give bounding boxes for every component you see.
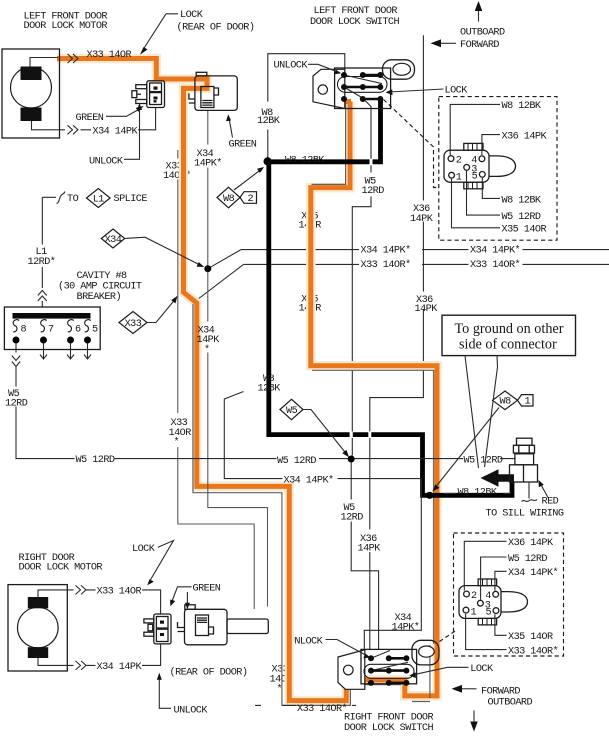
svg-text:W8 12BK: W8 12BK [502, 101, 542, 112]
wire thin shadow right vertical route [312, 370, 434, 644]
label RED with arrow [539, 480, 559, 508]
svg-text:14OR: 14OR [169, 428, 192, 439]
label W5 12RD middle [341, 503, 364, 524]
wire X33 14OR horizontal nets y=249/263 (thin, under orange) [198, 250, 609, 300]
label X35 14OR bottom box [495, 614, 553, 643]
wire X36 14PK vertical from top switch bracket [370, 35, 424, 649]
splice symbol W5 diamond [280, 399, 349, 457]
break squiggle on L1 wire [57, 192, 65, 204]
svg-text:X34 14PK: X34 14PK [97, 662, 143, 673]
label UNLOCK top motor [89, 103, 142, 168]
wire X33 14OR original thin (T1) conn2 to conn2-bottom [178, 150, 254, 609]
svg-text:X34 14PK*: X34 14PK* [470, 244, 520, 256]
svg-text:X33 14OR: X33 14OR [97, 587, 142, 598]
label X34 14PK* on line B upper [194, 149, 222, 170]
dashed box top connector detail [439, 97, 557, 241]
svg-text:BREAKER): BREAKER) [77, 291, 122, 303]
svg-text:X33 14OR: X33 14OR [87, 50, 132, 61]
label X33 14OR* bottom box [466, 614, 558, 658]
svg-text:X34 14PK: X34 14PK [93, 127, 139, 138]
wire W8 12BK thin from UNLOCK hook to junction [268, 54, 345, 161]
label X33 14OR* bottom wire [255, 703, 356, 715]
svg-text:RIGHT FRONT DOOR: RIGHT FRONT DOOR [344, 712, 433, 723]
node W5 junction dot [348, 456, 355, 463]
label TO L1 SPLICE [67, 189, 147, 208]
svg-text:DOOR LOCK MOTOR: DOOR LOCK MOTOR [19, 563, 103, 574]
label X33 14OR bottom-left of bottom switch (under orange) [270, 664, 289, 695]
label LEFT FRONT DOOR / DOOR LOCK SWITCH [310, 6, 399, 28]
dashed leader to bottom box [440, 631, 457, 642]
svg-text:W5 12RD: W5 12RD [76, 455, 115, 466]
connector symbol chevrons down on W5 wire pin8 [12, 356, 20, 367]
svg-text:12BK: 12BK [258, 384, 282, 395]
svg-text:(REAR OF DOOR): (REAR OF DOOR) [170, 666, 248, 678]
svg-text:X34: X34 [105, 235, 122, 246]
motor M2 right door lock motor [8, 585, 67, 671]
callout box To ground on other side of connector [442, 315, 576, 468]
svg-text:DOOR LOCK SWITCH: DOOR LOCK SWITCH [344, 723, 433, 734]
svg-text:UNLOCK: UNLOCK [274, 61, 309, 72]
wire L1 12RD to splice [42, 197, 56, 288]
wire thin shadow of orange along left route [193, 304, 430, 705]
connector symbol >> on M2 X33 wire [76, 585, 87, 594]
svg-text:LOCK: LOCK [445, 85, 469, 96]
svg-text:*: * [204, 344, 210, 356]
node W8 junction dot upper [264, 157, 272, 165]
svg-text:5: 5 [486, 608, 492, 619]
arrow OUTBOARD bottom [470, 697, 532, 731]
svg-text:X33 14OR*: X33 14OR* [508, 646, 558, 658]
splice symbol X33 diamond [119, 296, 178, 334]
svg-text:2: 2 [471, 591, 477, 602]
connector symbol >> on X34 wire [68, 125, 79, 134]
svg-text:W8 12BK: W8 12BK [458, 487, 498, 498]
svg-text:X33 14OR*: X33 14OR* [361, 259, 411, 271]
circuit breaker CB1 cavity #8 [4, 307, 100, 350]
svg-text:X33 14OR*: X33 14OR* [470, 259, 520, 271]
svg-text:W5 12RD: W5 12RD [277, 456, 316, 467]
label LOCK bottom switch [409, 664, 494, 678]
svg-text:12BK: 12BK [257, 116, 281, 127]
label W8 12BK pin2 [450, 101, 542, 155]
label X33 14OR* on T1 lower [169, 418, 192, 448]
arrow OUTBOARD top [460, 1, 505, 38]
wire W5 12RD horizontal from breaker to sill connector [16, 367, 515, 459]
svg-text:CAVITY #8: CAVITY #8 [77, 271, 128, 282]
label RIGHT FRONT DOOR / DOOR LOCK SWITCH [344, 712, 433, 734]
switch S1 left front door lock switch [313, 60, 415, 109]
svg-text:X34 14PK*: X34 14PK* [284, 475, 334, 487]
wire thin shadow top right route [312, 102, 346, 185]
label CAVITY #8 (30 AMP CIRCUIT BREAKER) [58, 271, 142, 303]
svg-text:FORWARD: FORWARD [481, 686, 520, 697]
big arrow to ground (end of W8 wire) [481, 469, 515, 486]
label X36 14PK lower [358, 534, 382, 555]
svg-text:X33: X33 [125, 319, 142, 330]
label W8 12BK over thick vertical wire [258, 374, 282, 395]
label GREEN bottom connectors [170, 583, 221, 609]
wire motor M1 top terminal [30, 58, 58, 68]
connector symbol W8>2 [217, 167, 264, 208]
svg-text:14PK: 14PK [410, 214, 434, 225]
svg-text:W5 12RD: W5 12RD [502, 212, 541, 223]
svg-text:TO SILL WIRING: TO SILL WIRING [486, 508, 564, 519]
label W8 12BK on thick wire near ground arrow [443, 487, 511, 498]
label W8 12BK pin5 [482, 178, 542, 206]
label RIGHT DOOR / DOOR LOCK MOTOR [19, 553, 103, 574]
label GREEN conn2 top [226, 114, 257, 150]
connector symbol >> on X33 wire [68, 54, 79, 63]
label X36 14PK middle [415, 295, 439, 315]
dashed leader from switch to dashed box [384, 100, 439, 188]
svg-text:X36 14PK: X36 14PK [502, 131, 548, 142]
svg-text:LEFT FRONT DOOR: LEFT FRONT DOOR [314, 6, 398, 17]
svg-text:L1: L1 [93, 194, 105, 205]
node W8 ground dot lower [426, 492, 433, 499]
svg-text:OUTBOARD: OUTBOARD [488, 697, 533, 708]
svg-text:12RD: 12RD [341, 512, 364, 523]
svg-text:UNLOCK: UNLOCK [89, 157, 124, 168]
label GREEN conn1 top [76, 106, 144, 124]
svg-text:OUTBOARD: OUTBOARD [460, 27, 505, 38]
connector C4 harness connector bottom [178, 605, 269, 645]
svg-text:(REAR OF DOOR): (REAR OF DOOR) [177, 22, 255, 34]
svg-text:W8 12BK: W8 12BK [285, 156, 325, 167]
wire orange stub at top switch row3 [338, 99, 352, 104]
connector C1 motor connector (GREEN) top [132, 81, 165, 108]
label X36 14PK upper [410, 204, 434, 225]
breaker terminal arrows down [16, 344, 91, 360]
wire X33 14OR orange highlighted circuit path [57, 59, 437, 701]
svg-text:side of connector: side of connector [459, 336, 557, 352]
svg-text:W5 12RD: W5 12RD [464, 456, 503, 467]
connector symbol W8>1 [433, 391, 534, 491]
svg-text:*: * [174, 437, 180, 449]
label W5 12RD upper [362, 176, 385, 197]
svg-text:5: 5 [92, 324, 98, 335]
svg-text:12RD*: 12RD* [28, 256, 56, 268]
svg-text:12RD: 12RD [362, 186, 385, 197]
label LOCK top switch [386, 85, 469, 96]
svg-text:W8 12BK: W8 12BK [502, 195, 542, 206]
svg-text:GREEN: GREEN [229, 140, 257, 151]
svg-text:X34 14PK*: X34 14PK* [508, 567, 558, 579]
svg-text:W8: W8 [500, 397, 512, 408]
svg-text:DOOR LOCK SWITCH: DOOR LOCK SWITCH [310, 17, 399, 28]
label W5 12RD pin3 [467, 171, 541, 223]
svg-text:1: 1 [456, 173, 462, 184]
connector symbol chevrons up on L1 wire [38, 291, 47, 302]
svg-text:W5 12RD: W5 12RD [508, 554, 547, 565]
svg-text:W5: W5 [286, 406, 298, 417]
label LOCK (REAR OF DOOR) top [140, 10, 254, 55]
label W8 12BK upper [257, 108, 281, 127]
switch S2 right front door lock switch [338, 640, 439, 689]
label X35 14OR pin1 [452, 179, 547, 236]
svg-text:X35 14OR: X35 14OR [502, 225, 547, 236]
svg-text:*: * [277, 684, 283, 696]
wire X34 14PK bottom net (y479 line to bottom switch) [224, 392, 421, 650]
svg-text:GREEN: GREEN [193, 583, 221, 594]
svg-text:W8: W8 [223, 194, 235, 205]
svg-text:2: 2 [456, 156, 462, 167]
svg-text:14PK*: 14PK* [392, 622, 420, 634]
svg-text:RED: RED [542, 497, 559, 508]
wire motor M2 top terminal X33 14OR [38, 590, 161, 614]
svg-text:X34 14PK*: X34 14PK* [361, 244, 411, 256]
svg-text:8: 8 [21, 324, 27, 335]
svg-text:X36 14PK: X36 14PK [508, 538, 554, 549]
connector symbol >> on M2 X34 wire [76, 661, 87, 670]
svg-text:DOOR LOCK MOTOR: DOOR LOCK MOTOR [24, 21, 108, 32]
svg-text:UNLOCK: UNLOCK [174, 705, 209, 716]
svg-text:14PK: 14PK [415, 304, 439, 315]
connector C2 harness connector top [189, 72, 237, 110]
svg-text:LOCK: LOCK [470, 664, 494, 675]
label X34 14PK* bottom box [495, 567, 558, 591]
svg-text:GREEN: GREEN [76, 113, 104, 124]
splice symbol X34 diamond [101, 229, 204, 267]
label W5 12RD bottom box [481, 554, 548, 600]
wire W5 12RD from top switch down to junction and bottom switch [351, 99, 378, 649]
svg-text:12RD: 12RD [5, 399, 28, 410]
svg-text:X33 14OR*: X33 14OR* [297, 703, 347, 715]
svg-text:X35 14OR: X35 14OR [508, 632, 553, 643]
svg-text:14PK: 14PK [358, 543, 382, 554]
label X34 14PK* above bottom switch [392, 613, 420, 634]
label UNLOCK top switch [274, 61, 342, 75]
label X36 14PK bottom box [464, 538, 554, 590]
label LEFT FRONT DOOR / DOOR LOCK MOTOR [24, 11, 108, 32]
svg-text:1: 1 [471, 607, 477, 618]
svg-text:LOCK: LOCK [180, 10, 204, 21]
svg-text:7: 7 [48, 324, 54, 335]
wire hop gaps in thick wire [350, 159, 373, 438]
svg-text:LOCK: LOCK [132, 544, 156, 555]
dashed box bottom connector detail [454, 533, 564, 656]
label UNLOCK bottom left [157, 673, 209, 717]
svg-text:SPLICE: SPLICE [114, 194, 148, 205]
connector face view bottom [459, 579, 528, 625]
label X35 14OR on orange vertical upper (under orange) [299, 211, 322, 231]
arrow FORWARD bottom [452, 685, 521, 698]
label L1 12RD* [28, 247, 56, 268]
label X35 14OR on orange vertical lower (under orange) [299, 295, 322, 315]
wire W8 12BK thick ground wire [269, 98, 512, 495]
motor M1 left front door lock motor [2, 49, 60, 138]
svg-text:6: 6 [75, 324, 81, 335]
svg-text:14PK*: 14PK* [194, 157, 222, 169]
svg-text:TO: TO [67, 194, 79, 205]
wire motor M2 bottom terminal X34 14PK [38, 644, 161, 665]
svg-text:2: 2 [248, 194, 254, 205]
label UNLOCK bottom switch leader [326, 640, 371, 659]
label X33 14OR* upper (under orange) [163, 162, 191, 182]
wire X34 14PK from conn2 top down (line B) [208, 111, 268, 607]
label X34 14PK* on line B lower [197, 326, 221, 356]
node X34 junction dot [204, 265, 211, 272]
svg-text:(30 AMP CIRCUIT: (30 AMP CIRCUIT [58, 281, 142, 293]
svg-text:To ground on other: To ground on other [455, 321, 564, 337]
svg-text:5: 5 [472, 172, 478, 183]
connector C3 motor connector bottom (GREEN) [144, 614, 171, 644]
svg-text:FORWARD: FORWARD [460, 40, 499, 51]
label X36 14PK pin4 [482, 131, 548, 155]
connector C5 sill wiring connector [510, 438, 538, 501]
wire motor M1 bottom terminal X34 14PK [32, 108, 156, 130]
svg-text:1: 1 [525, 397, 531, 408]
label LOCK bottom motor [132, 541, 174, 586]
label W5 12RD left [5, 389, 28, 410]
arrow FORWARD top [431, 39, 500, 51]
connector face view top [444, 143, 516, 188]
